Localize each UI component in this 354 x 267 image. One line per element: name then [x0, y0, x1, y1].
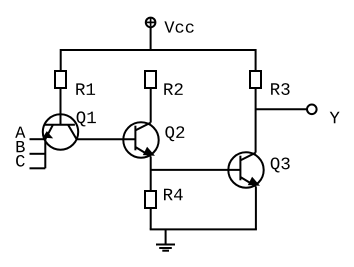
wire Vcc stem: [150, 28, 152, 51]
input label C: [16, 155, 25, 167]
wire Q1 collector to Q2 base: [77, 138, 136, 140]
wire output Y: [256, 108, 307, 110]
label R4: [164, 189, 183, 201]
wire top rail: [61, 50, 256, 71]
label R1: [76, 83, 95, 95]
wire input C: [30, 167, 46, 169]
ground: [156, 229, 175, 250]
resistor R4: [145, 191, 156, 208]
label R3: [271, 83, 290, 95]
wire Q3 emitter down: [255, 186, 257, 229]
wire bottom rail: [150, 228, 257, 230]
wire Q2 collector to R2: [150, 88, 152, 123]
transistor Q3: [228, 152, 263, 187]
wire Q2 emitter down to R4: [150, 156, 152, 191]
resistor R3: [250, 71, 261, 88]
wire input junction vertical: [44, 139, 46, 168]
label R2: [164, 83, 182, 95]
label Y: [330, 112, 340, 124]
wire input B: [30, 153, 46, 155]
wire input A: [30, 138, 46, 140]
wire Q3 collector to R3: [255, 88, 257, 153]
resistor R1: [55, 71, 66, 88]
wire R4 to bottom rail: [150, 208, 152, 229]
input label A: [15, 127, 25, 138]
wire emitter junction to Q3 base: [151, 169, 241, 171]
transistor Q1: [43, 114, 78, 149]
label Q2: [165, 126, 184, 141]
Vcc power symbol: [146, 18, 156, 28]
wire R1 to Q1 base: [60, 88, 62, 125]
transistor Q2: [123, 122, 158, 157]
label Q3: [271, 158, 290, 173]
Vcc label: [164, 21, 193, 32]
input label B: [17, 141, 25, 152]
output terminal Y: [307, 105, 317, 115]
resistor R2: [145, 71, 156, 88]
label Q1: [77, 111, 96, 126]
